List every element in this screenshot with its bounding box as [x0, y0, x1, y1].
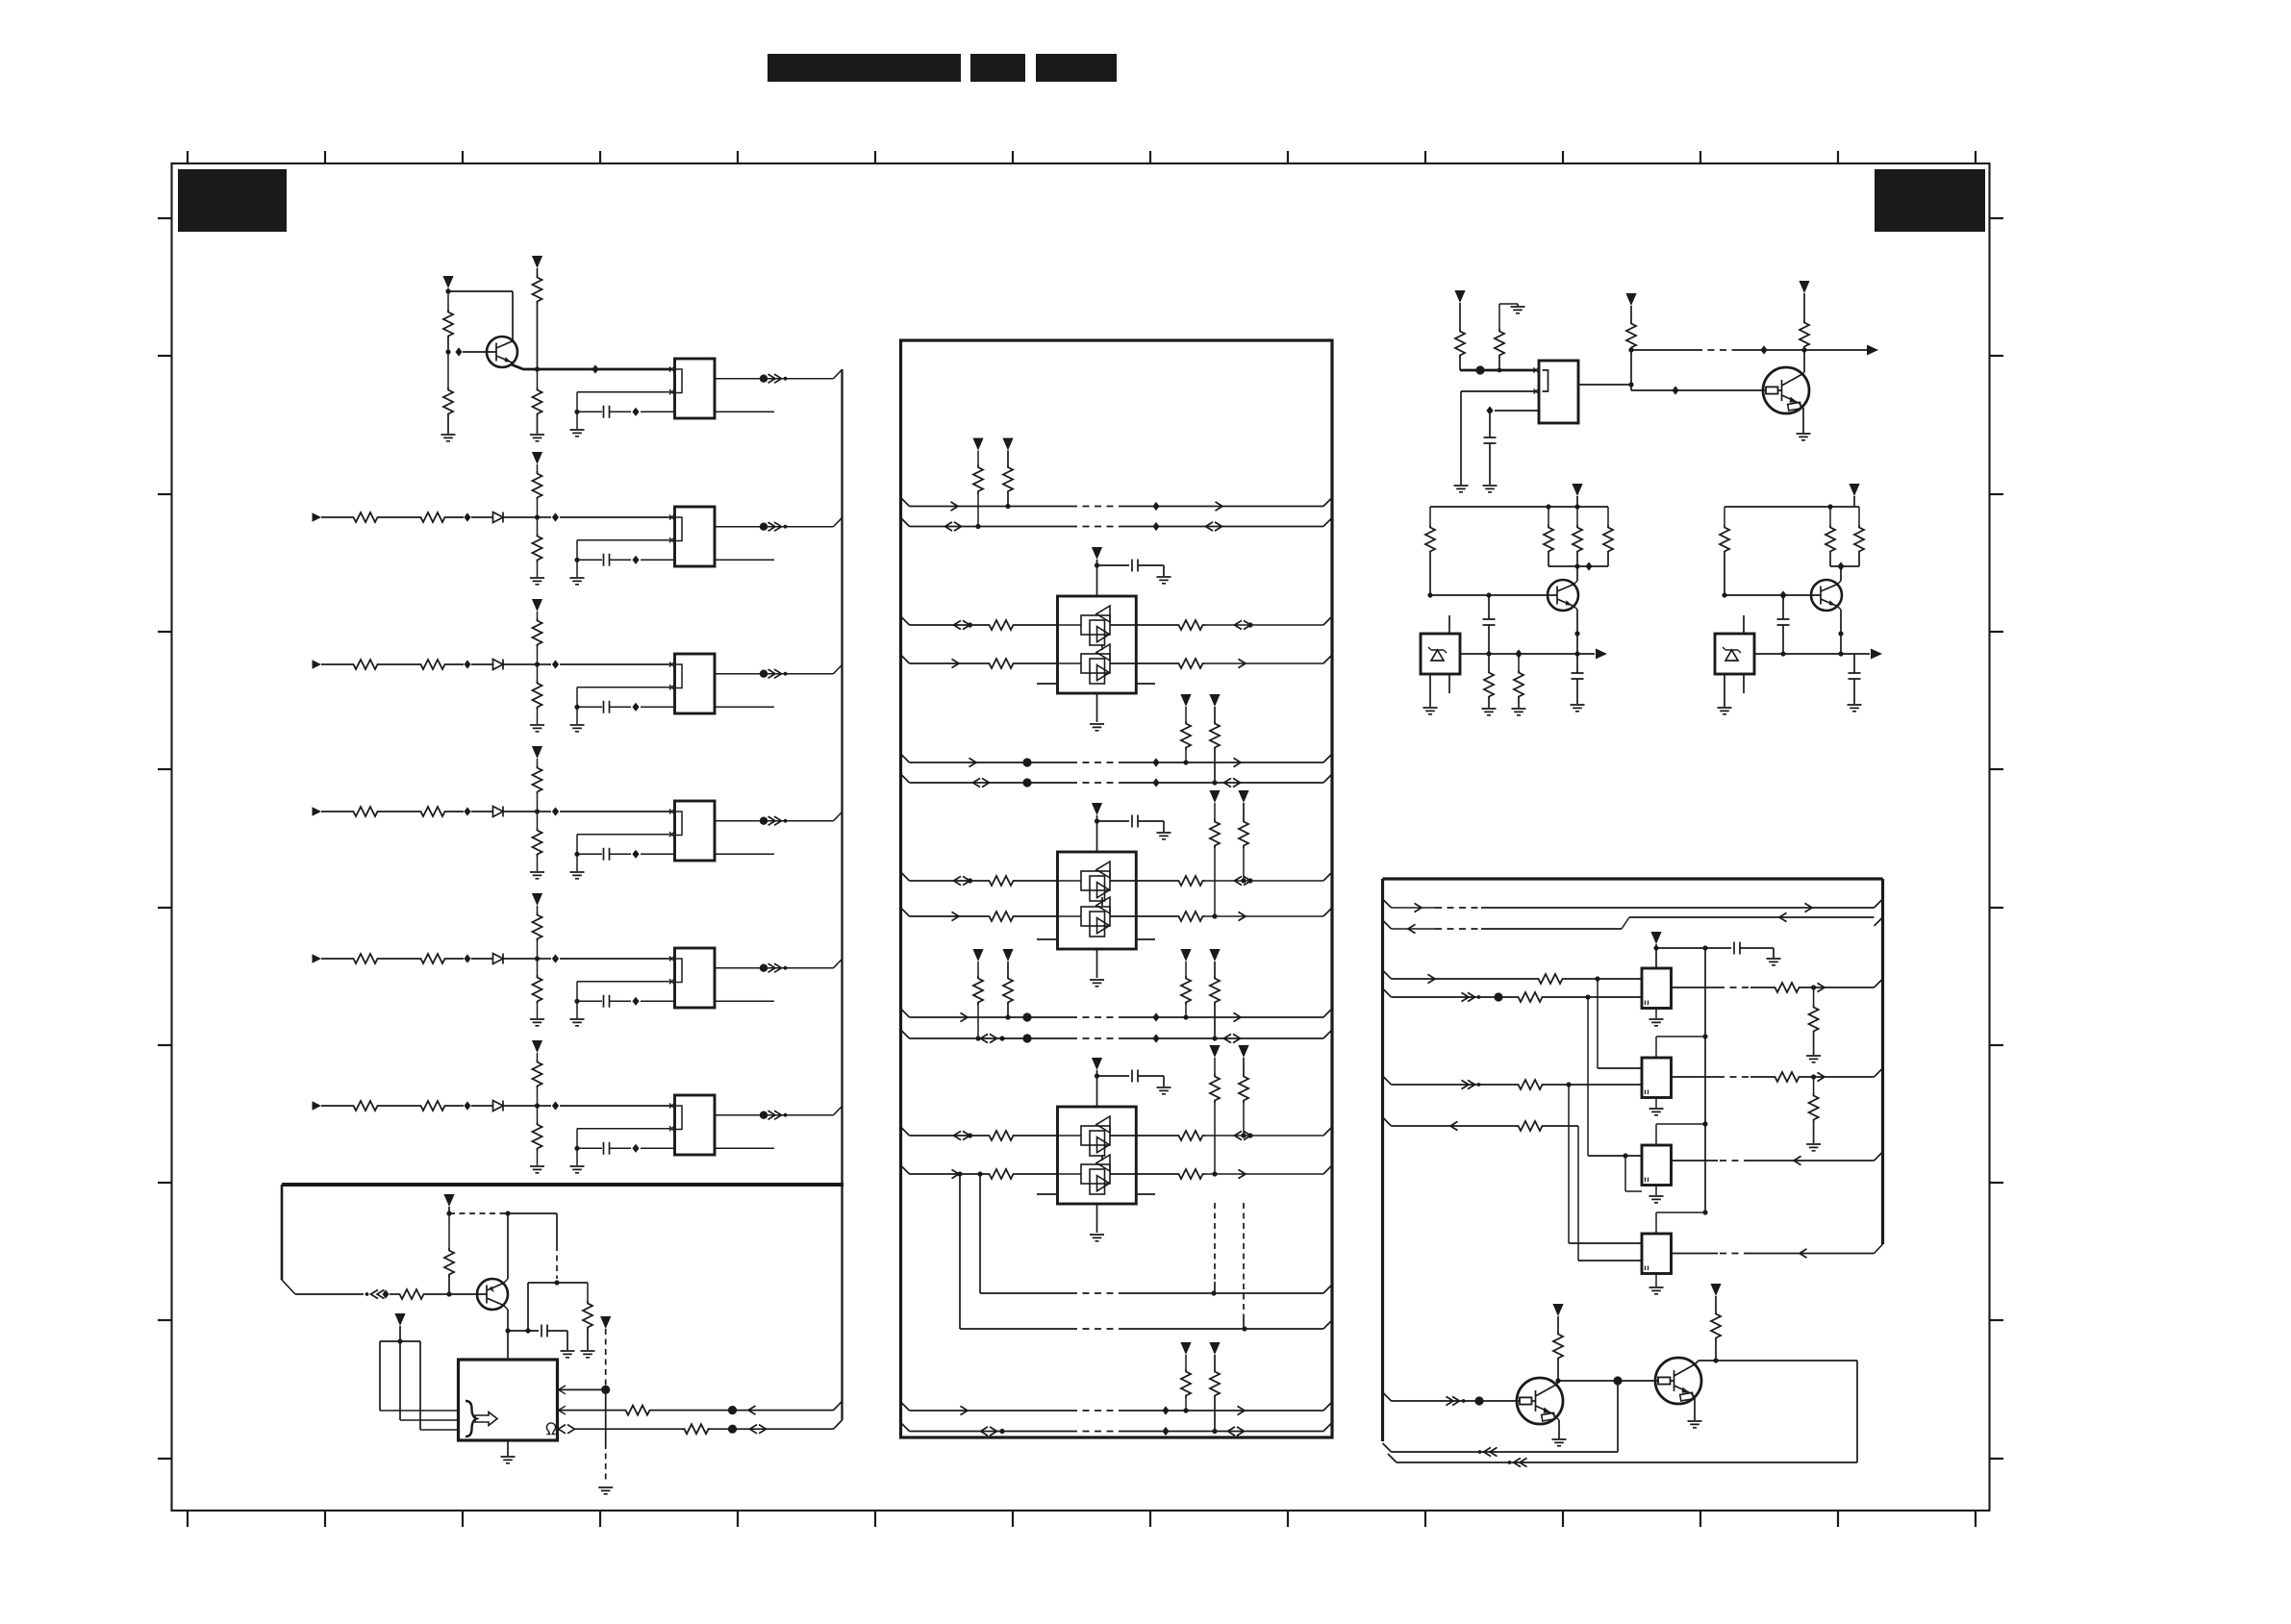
junction [535, 1103, 540, 1108]
pull-up resistor pair (left) [972, 438, 983, 451]
diamond junction marker [552, 660, 559, 668]
U10 enable pin wire [559, 1386, 566, 1394]
collector top wire [1699, 1360, 1857, 1362]
power supply arrow [532, 893, 542, 906]
U10 ground [507, 1440, 509, 1456]
right side wires [1136, 624, 1176, 626]
resistor to ground [1484, 670, 1494, 699]
left side wires [901, 1127, 910, 1136]
power supply arrow [443, 1194, 454, 1207]
IC30 power pin [1655, 948, 1657, 968]
power supply arrow [394, 1313, 405, 1326]
top rail wire [1725, 506, 1859, 508]
top-right black label box [1875, 169, 1985, 232]
pull-up resistor [533, 912, 542, 941]
resistor R into Q10 base [397, 1289, 426, 1299]
channel 1 rail resistor lower [537, 369, 539, 387]
channel 5 input arrow [313, 954, 322, 963]
bus line (lower of pair) [901, 1423, 910, 1432]
junction dots [1022, 758, 1031, 766]
diamond junction marker [1152, 1012, 1159, 1021]
diamond junction marker [552, 954, 559, 962]
emitter node [1574, 631, 1579, 636]
resistor [987, 876, 1016, 886]
base wire [1631, 389, 1763, 391]
transistor Q30 (digital npn) [1517, 1378, 1563, 1424]
signal line through buffer [1058, 915, 1082, 917]
arrow marker [961, 1012, 969, 1021]
channel 1 output wire to bus [715, 378, 834, 380]
decoupling capacitor [1097, 1075, 1130, 1077]
transistor Q30 base line [1383, 1392, 1392, 1401]
channel 4 series resistor B [418, 807, 447, 816]
ground [576, 1148, 578, 1165]
U10 left side loop wires [380, 1410, 459, 1412]
diamond junction marker [552, 807, 559, 815]
IC32 [1642, 1145, 1672, 1186]
power supply arrow [532, 746, 542, 759]
bottom-left block left edge [281, 1185, 284, 1280]
dashed collector supply wire [449, 1212, 508, 1214]
double arrow marker [981, 1427, 997, 1436]
U20 pin2 wire to ground [1461, 390, 1535, 392]
diamond junction marker [464, 1101, 470, 1110]
IC32 output (incoming) [1875, 1152, 1883, 1161]
channel 1 rail power arrow [532, 256, 542, 268]
pull-up resistor [533, 471, 542, 500]
bus line (lower of pair) [901, 518, 910, 527]
channel 5 output wire to bus [715, 967, 834, 969]
right block top edge [1383, 877, 1883, 880]
signal line through buffer [1058, 624, 1082, 626]
resistor [1516, 1121, 1545, 1131]
signal line through buffer [1058, 662, 1082, 664]
resistor [1536, 974, 1565, 984]
channel 3 buffer IC U3 [675, 654, 716, 713]
second resistor to ground [1518, 654, 1520, 670]
resistor [623, 1406, 652, 1415]
channel 2 buffer IC U2 [675, 507, 716, 566]
box output wire [1459, 653, 1461, 655]
bus line 2 [1383, 920, 1392, 929]
feedback capacitor [577, 1128, 670, 1130]
diamond junction marker [455, 347, 462, 356]
resistor [1773, 1072, 1801, 1082]
diamond junction marker [464, 512, 470, 521]
IC33 power pin [1655, 1212, 1657, 1234]
buffer pair glyph [1081, 907, 1110, 926]
diamond junction marker [632, 703, 639, 712]
collector resistor bank (3x) [1548, 507, 1549, 525]
bus line (upper of pair) [901, 1009, 910, 1017]
channel 3 output wire to bus [715, 673, 834, 675]
diamond junction marker [464, 954, 470, 962]
zener reference box [1715, 634, 1754, 674]
ground [530, 435, 544, 441]
diamond junction marker [382, 1289, 389, 1298]
diamond junction marker [632, 556, 639, 564]
resistor [987, 620, 1016, 630]
resistor [1176, 912, 1205, 921]
output wire with arrow [1754, 653, 1870, 655]
diamond junction marker [1760, 345, 1767, 354]
channel 5 series resistor B [418, 954, 447, 963]
buffer IC U1 [675, 359, 716, 418]
channel 6 series resistor B [418, 1101, 447, 1111]
junction [535, 956, 540, 961]
collector resistor bank (2x) [1829, 507, 1831, 525]
diamond junction marker [632, 1144, 639, 1153]
resistor [682, 1424, 711, 1434]
node [728, 1406, 737, 1414]
IC33 input from line6 [1577, 1126, 1579, 1261]
line 5 into IC31 [1383, 1076, 1392, 1085]
op-amp ground [1096, 693, 1098, 722]
junctions [1183, 1408, 1188, 1412]
thick node wire [1460, 369, 1535, 372]
channel 2 series resistor B [418, 512, 447, 522]
load resistor to ground [1813, 1077, 1815, 1093]
wrap-down wire A from unit 3 [977, 1171, 982, 1176]
resistor [1176, 876, 1205, 886]
ground [530, 1166, 544, 1173]
IC33 output (incoming) [1750, 1253, 1875, 1255]
diamond junction marker [1152, 1034, 1159, 1042]
channel 4 output wire to bus [715, 820, 834, 822]
power supply arrow [532, 599, 542, 612]
channel 6 series resistor A [351, 1101, 380, 1111]
resistor R22 [1626, 321, 1636, 350]
buffer pair glyph [1081, 615, 1110, 635]
resistor [987, 1131, 1016, 1140]
IC31 power pin [1655, 1037, 1657, 1058]
node [446, 1211, 451, 1215]
transistor Q10 (pnp) [477, 1279, 508, 1310]
ground [576, 560, 578, 577]
resistor [987, 912, 1016, 921]
title bar 2 (redacted) [970, 54, 1025, 82]
IC33 [1642, 1234, 1672, 1274]
channel 2 clamp diode [493, 512, 504, 523]
channel 6 buffer IC U6 [675, 1095, 716, 1155]
bus line (upper of pair) [901, 1402, 910, 1411]
resistor [1176, 1131, 1205, 1140]
dashed verticals from resistor pair [1214, 1203, 1216, 1282]
diamond junction marker [464, 807, 470, 815]
diamond junction marker [632, 997, 639, 1006]
center block outline [901, 340, 1333, 1437]
bus line (lower of pair) [901, 774, 910, 783]
IC31 input pin from line3 [1597, 979, 1599, 1068]
top rail wire [1430, 506, 1608, 508]
IC32 input from line4 [1587, 997, 1589, 1156]
resistor [1176, 659, 1205, 668]
transistor Q (npn) [1811, 580, 1842, 611]
resistor R21 [1495, 329, 1504, 358]
channel 4 buffer IC U4 [675, 801, 716, 861]
decoupling capacitor [1097, 820, 1130, 822]
channel 6 clamp diode [493, 1101, 504, 1112]
base capacitor [1488, 595, 1490, 619]
feedback capacitor C1 net [577, 391, 670, 393]
channel 6 output wire to bus [715, 1114, 834, 1116]
diamond junction marker [552, 512, 559, 521]
left side wires [901, 616, 910, 625]
IC30 [1642, 968, 1672, 1009]
ground [530, 578, 544, 585]
buffer pair glyph [1081, 1164, 1110, 1184]
IC32 second input stub [1624, 1156, 1626, 1191]
pull-down resistor [537, 959, 539, 975]
resistor [1516, 1080, 1545, 1089]
pull-down resistor [537, 812, 539, 828]
bottom side stubs [1037, 1193, 1058, 1195]
line 4 into IC30 [1383, 988, 1392, 997]
diamond junction marker [592, 364, 598, 373]
Q10 emitter node [504, 1306, 509, 1311]
signal line through buffer [1058, 1173, 1082, 1175]
junctions [975, 1036, 980, 1040]
ground [581, 1351, 595, 1358]
IC U20 [1539, 361, 1578, 423]
double arrow marker [973, 778, 990, 787]
channel 4 input arrow [313, 807, 322, 816]
diamond junction marker [464, 660, 470, 668]
power distribution vertical [1704, 948, 1706, 1212]
line 3 into IC30 [1383, 970, 1392, 979]
channel 5 buffer IC U5 [675, 948, 716, 1008]
title bar 1 (redacted) [768, 54, 961, 82]
resistor R23 [1800, 320, 1809, 349]
wire to IC U10 [507, 1331, 509, 1360]
diamond junction marker [1162, 1427, 1169, 1436]
load resistor to ground [1813, 987, 1815, 1005]
IC31 ground [1655, 1098, 1657, 1109]
U20 pin3 capacitor to ground [1495, 410, 1539, 412]
channel 5 series resistor A [351, 954, 380, 963]
base wire [1725, 594, 1811, 596]
right block right edge [1881, 879, 1884, 1244]
coupling wire to Q31 [1558, 1380, 1654, 1382]
base capacitor [1782, 595, 1784, 619]
emitter capacitor to ground [1576, 654, 1578, 673]
resistor R20 [1455, 329, 1465, 358]
U20 output wire [1578, 384, 1631, 386]
diamond junction marker [632, 850, 639, 859]
left bias resistor [1429, 507, 1431, 525]
zener ground [1429, 674, 1431, 707]
resistor [1176, 1169, 1205, 1179]
IC33 ground [1655, 1274, 1657, 1287]
Q1 emitter to buffer input (thick trace) [512, 364, 671, 369]
pull-down resistor [537, 664, 539, 681]
power supply arrow [1625, 293, 1636, 306]
power supply arrow [1710, 1284, 1721, 1296]
ground (top hook) [1498, 304, 1500, 329]
U10 sense pin wire [559, 1425, 575, 1434]
pull-up resistor pair (right of unit) [1209, 790, 1220, 803]
signal line through buffer [1058, 880, 1082, 882]
inner link [1101, 1155, 1103, 1161]
IC31 [1642, 1058, 1672, 1098]
ground [530, 872, 544, 879]
channel 5 clamp diode [493, 954, 504, 964]
collector resistor [1711, 1312, 1721, 1340]
node: enable [601, 1386, 610, 1394]
IC31 output [1672, 1076, 1719, 1078]
capacitor to ground [541, 1325, 547, 1337]
power supply arrow [532, 452, 542, 464]
resistor [1773, 983, 1801, 992]
resistor [987, 659, 1016, 668]
double arrow marker [750, 1425, 767, 1434]
IC32 ground [1655, 1186, 1657, 1196]
diamond junction marker [1162, 1406, 1169, 1414]
diamond junction marker [1152, 522, 1159, 531]
dual buffer op-amp unit [1058, 852, 1137, 949]
ground [576, 1001, 578, 1018]
resistor [1516, 992, 1545, 1002]
arrow marker [951, 502, 959, 511]
diamond junction marker [1152, 758, 1159, 766]
line 6 wire [1383, 1117, 1392, 1126]
power arrow for op-amp [1092, 803, 1102, 815]
node: Q10 base [446, 1291, 451, 1296]
feedback capacitor [577, 981, 670, 983]
bottom side stubs [1037, 683, 1058, 685]
junction dots [1022, 1012, 1031, 1021]
ground [576, 707, 578, 724]
feedback wire 2 [1856, 1361, 1858, 1462]
double arrow marker [945, 522, 962, 531]
node [728, 1425, 737, 1434]
channel 4 clamp diode [493, 807, 504, 817]
transistor Q1 bias rail power arrow [442, 276, 453, 288]
junction [535, 514, 540, 519]
node: Q1 collector feed [445, 288, 450, 293]
pull-down resistor [537, 1106, 539, 1122]
arrow marker [961, 1406, 969, 1414]
inner link [1101, 644, 1103, 650]
buffer pair glyph [1081, 1126, 1110, 1145]
channel 4 series resistor A [351, 807, 380, 816]
power supply arrow [1849, 484, 1859, 496]
base pull resistor [448, 1213, 450, 1248]
power arrow for op-amp [1092, 1058, 1102, 1070]
signal line through buffer [1058, 1135, 1082, 1137]
transistor Q31 (digital npn) [1655, 1358, 1701, 1404]
pull-up resistor [533, 1060, 542, 1088]
junction [535, 809, 540, 813]
junctions [975, 524, 980, 529]
IC30 ground [1655, 1009, 1657, 1019]
right block left edge [1381, 879, 1384, 1441]
bottom side stubs [1037, 938, 1058, 940]
output arrow [1867, 345, 1878, 356]
channel 3 clamp diode [493, 660, 504, 670]
dual buffer op-amp unit [1058, 1107, 1137, 1204]
zener ground [1724, 674, 1725, 707]
bus line 1 (top) [1383, 899, 1392, 908]
output wire with arrow [1460, 653, 1595, 655]
junctions [1183, 1014, 1188, 1019]
bottom-left block top edge [282, 1183, 843, 1187]
left side wires [901, 872, 910, 881]
Q30 emitter ground [1552, 1413, 1559, 1420]
power arrow feeding IC chain [1650, 932, 1661, 944]
IC32 power pin [1655, 1124, 1657, 1145]
decoupling capacitor [1734, 942, 1740, 955]
feedback capacitor [577, 687, 670, 688]
power supply arrow [1552, 1304, 1563, 1316]
wire [528, 1282, 586, 1284]
feedback capacitor [577, 834, 670, 836]
left output bus (vertical) [841, 369, 843, 1420]
emitter node [1838, 631, 1843, 636]
transistor Q1 (npn) [487, 337, 517, 367]
dual buffer op-amp unit [1058, 596, 1137, 693]
decoupling capacitor [1097, 564, 1130, 566]
ground [530, 1019, 544, 1026]
buffer pair glyph [1081, 871, 1110, 890]
signal line with break [1631, 349, 1696, 351]
buffer pair glyph [1081, 654, 1110, 673]
ground [576, 854, 578, 871]
transistor Q (npn) [1548, 580, 1578, 611]
arrow marker [748, 1406, 756, 1414]
left bias resistor [1724, 507, 1725, 525]
collector resistor [1553, 1332, 1563, 1361]
bus line (upper of pair) [901, 754, 910, 762]
resistor [987, 1169, 1016, 1179]
inner link [1101, 897, 1103, 906]
feedback capacitor [577, 539, 670, 541]
ground [1797, 434, 1811, 440]
diamond junction marker [1152, 502, 1159, 511]
power supply arrow [532, 1040, 542, 1053]
pull-up resistor pair (left) [972, 949, 983, 962]
top-left black label box [178, 169, 287, 232]
resistor R1 (base divider top) [447, 291, 449, 310]
resistor to ground [586, 1282, 588, 1284]
junctions [1183, 760, 1188, 764]
pull-up resistor pair (right) [1180, 694, 1191, 707]
emitter capacitor to ground [1780, 651, 1785, 656]
op-amp ground [1096, 1204, 1098, 1233]
channel 2 output wire to bus [715, 526, 834, 528]
node at Q20 collector [1801, 347, 1806, 352]
channel 2 input arrow [313, 512, 322, 522]
feedback wire 1 [1617, 1381, 1619, 1452]
arrow marker [969, 758, 977, 766]
pull-down resistor [537, 517, 539, 534]
pull-up resistor [533, 618, 542, 647]
right side wires [1136, 880, 1176, 882]
ground [598, 1487, 613, 1494]
op-amp ground [1096, 949, 1098, 978]
ground [441, 435, 456, 441]
base wire [1430, 594, 1548, 596]
pull-up resistor [533, 765, 542, 794]
transistor Q20 (digital npn) [1763, 367, 1809, 413]
right side wires [1136, 1135, 1176, 1137]
channel 6 input arrow [313, 1101, 322, 1111]
zener reference box [1421, 634, 1460, 674]
bus line (lower of pair) [901, 1030, 910, 1038]
junction on output line [535, 366, 540, 371]
power supply arrow [1572, 484, 1582, 496]
IC U10 (regulator with arrow glyph) [459, 1360, 558, 1440]
